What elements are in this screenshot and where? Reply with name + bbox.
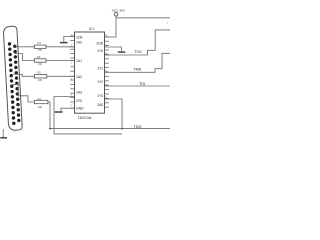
svg-text:2: 2 bbox=[13, 132, 15, 134]
wire row3 DB25 pin jog to R3 bbox=[13, 74, 34, 76]
svg-text:R3: R3 bbox=[37, 71, 41, 75]
svg-text:1Y1: 1Y1 bbox=[97, 67, 103, 71]
svg-text:1OE: 1OE bbox=[76, 35, 84, 39]
svg-text:R1: R1 bbox=[38, 41, 42, 45]
svg-text:TDO: TDO bbox=[134, 125, 142, 129]
svg-text:100: 100 bbox=[38, 105, 43, 109]
wire IC GND pin stub bbox=[61, 108, 75, 111]
connector pin dots column 1 bbox=[8, 42, 16, 125]
svg-text:IC1: IC1 bbox=[89, 27, 94, 31]
wire R2 to IC 1A1 bbox=[46, 60, 75, 62]
wire TDI net bbox=[105, 85, 171, 87]
wire 1OE to ground stem bbox=[64, 37, 75, 42]
svg-text:74HC244: 74HC244 bbox=[78, 116, 92, 120]
svg-text:2OE: 2OE bbox=[96, 42, 104, 46]
wire row4 DB25 pin double jog to R4 bbox=[13, 85, 35, 102]
svg-text:VCC 3V3: VCC 3V3 bbox=[112, 9, 125, 13]
wire IC 2A3 to GND rail bbox=[54, 97, 75, 134]
ground bar for 1OE bbox=[60, 42, 68, 44]
connector pin dots column 2 bbox=[13, 45, 21, 123]
resistor R1 bbox=[34, 41, 46, 52]
ic pin stubs left bbox=[70, 36, 74, 108]
ic pin labels left bbox=[76, 35, 84, 110]
ic pin numbers right bbox=[105, 35, 108, 99]
svg-text:1Y3: 1Y3 bbox=[97, 94, 103, 98]
resistor R4 bbox=[34, 97, 48, 109]
svg-text:1A1: 1A1 bbox=[76, 59, 82, 63]
svg-text:R4: R4 bbox=[38, 97, 42, 101]
ic pin numbers left bbox=[70, 35, 73, 108]
ic IC1 74HC244 box bbox=[75, 32, 105, 113]
ground bar for DB25 shell bbox=[0, 137, 7, 139]
wire R4 to TDO branch bbox=[48, 102, 50, 129]
connector X1 DB25 (tilted) bbox=[3, 26, 22, 131]
svg-text:100: 100 bbox=[38, 48, 43, 52]
resistor R3 bbox=[34, 71, 47, 82]
resistor R2 bbox=[34, 55, 46, 66]
svg-text:1A3: 1A3 bbox=[76, 90, 82, 94]
junction dot TDO drop bbox=[121, 128, 123, 130]
ic pin labels right bbox=[96, 42, 104, 107]
wire R3 to IC 1A2 bbox=[47, 75, 75, 77]
wire IC TDO input drop bbox=[105, 99, 123, 129]
svg-text:100: 100 bbox=[38, 78, 43, 82]
junction dot R4 to TDO bbox=[49, 128, 51, 130]
wire TMS net staircase bbox=[105, 53, 171, 72]
connector body outline bbox=[3, 26, 22, 131]
svg-text:TCK: TCK bbox=[134, 50, 142, 54]
svg-text:TMS: TMS bbox=[133, 68, 141, 72]
svg-text:1: 1 bbox=[167, 22, 169, 24]
wire VCC stem to IC pin 20 bbox=[105, 16, 117, 37]
svg-text:1Y2: 1Y2 bbox=[97, 80, 103, 84]
power VCC rail to right edge bbox=[116, 17, 170, 19]
svg-text:R2: R2 bbox=[37, 55, 41, 59]
wire row1 DB25 pin to R1 bbox=[15, 46, 35, 48]
wire 2OE to ground stem bbox=[105, 47, 122, 51]
svg-text:TDI: TDI bbox=[139, 82, 145, 86]
power VCC circle bbox=[114, 13, 118, 17]
ic pin stubs right bbox=[105, 37, 109, 107]
svg-text:1A2: 1A2 bbox=[76, 75, 82, 79]
wire GND bottom rail bbox=[54, 133, 122, 135]
wire TDO bottom rail bbox=[50, 128, 170, 130]
svg-text:2A0: 2A0 bbox=[97, 103, 103, 107]
wire R1 to IC 1A0 bbox=[46, 46, 75, 48]
svg-text:100: 100 bbox=[38, 62, 43, 66]
svg-text:GND: GND bbox=[76, 107, 84, 111]
ground bar for 2OE bbox=[118, 51, 126, 53]
ground bar for IC GND pin bbox=[55, 111, 63, 113]
svg-text:1A0: 1A0 bbox=[76, 41, 82, 45]
wire DB25 shell to ground bbox=[2, 129, 4, 137]
svg-text:1Y0: 1Y0 bbox=[97, 49, 103, 53]
wire row2 DB25 pin jog to R2 bbox=[14, 54, 34, 61]
svg-text:2Y0: 2Y0 bbox=[76, 99, 82, 103]
svg-text:4: 4 bbox=[71, 62, 73, 64]
wire TCK net staircase bbox=[105, 30, 171, 55]
svg-text:10: 10 bbox=[70, 105, 73, 107]
